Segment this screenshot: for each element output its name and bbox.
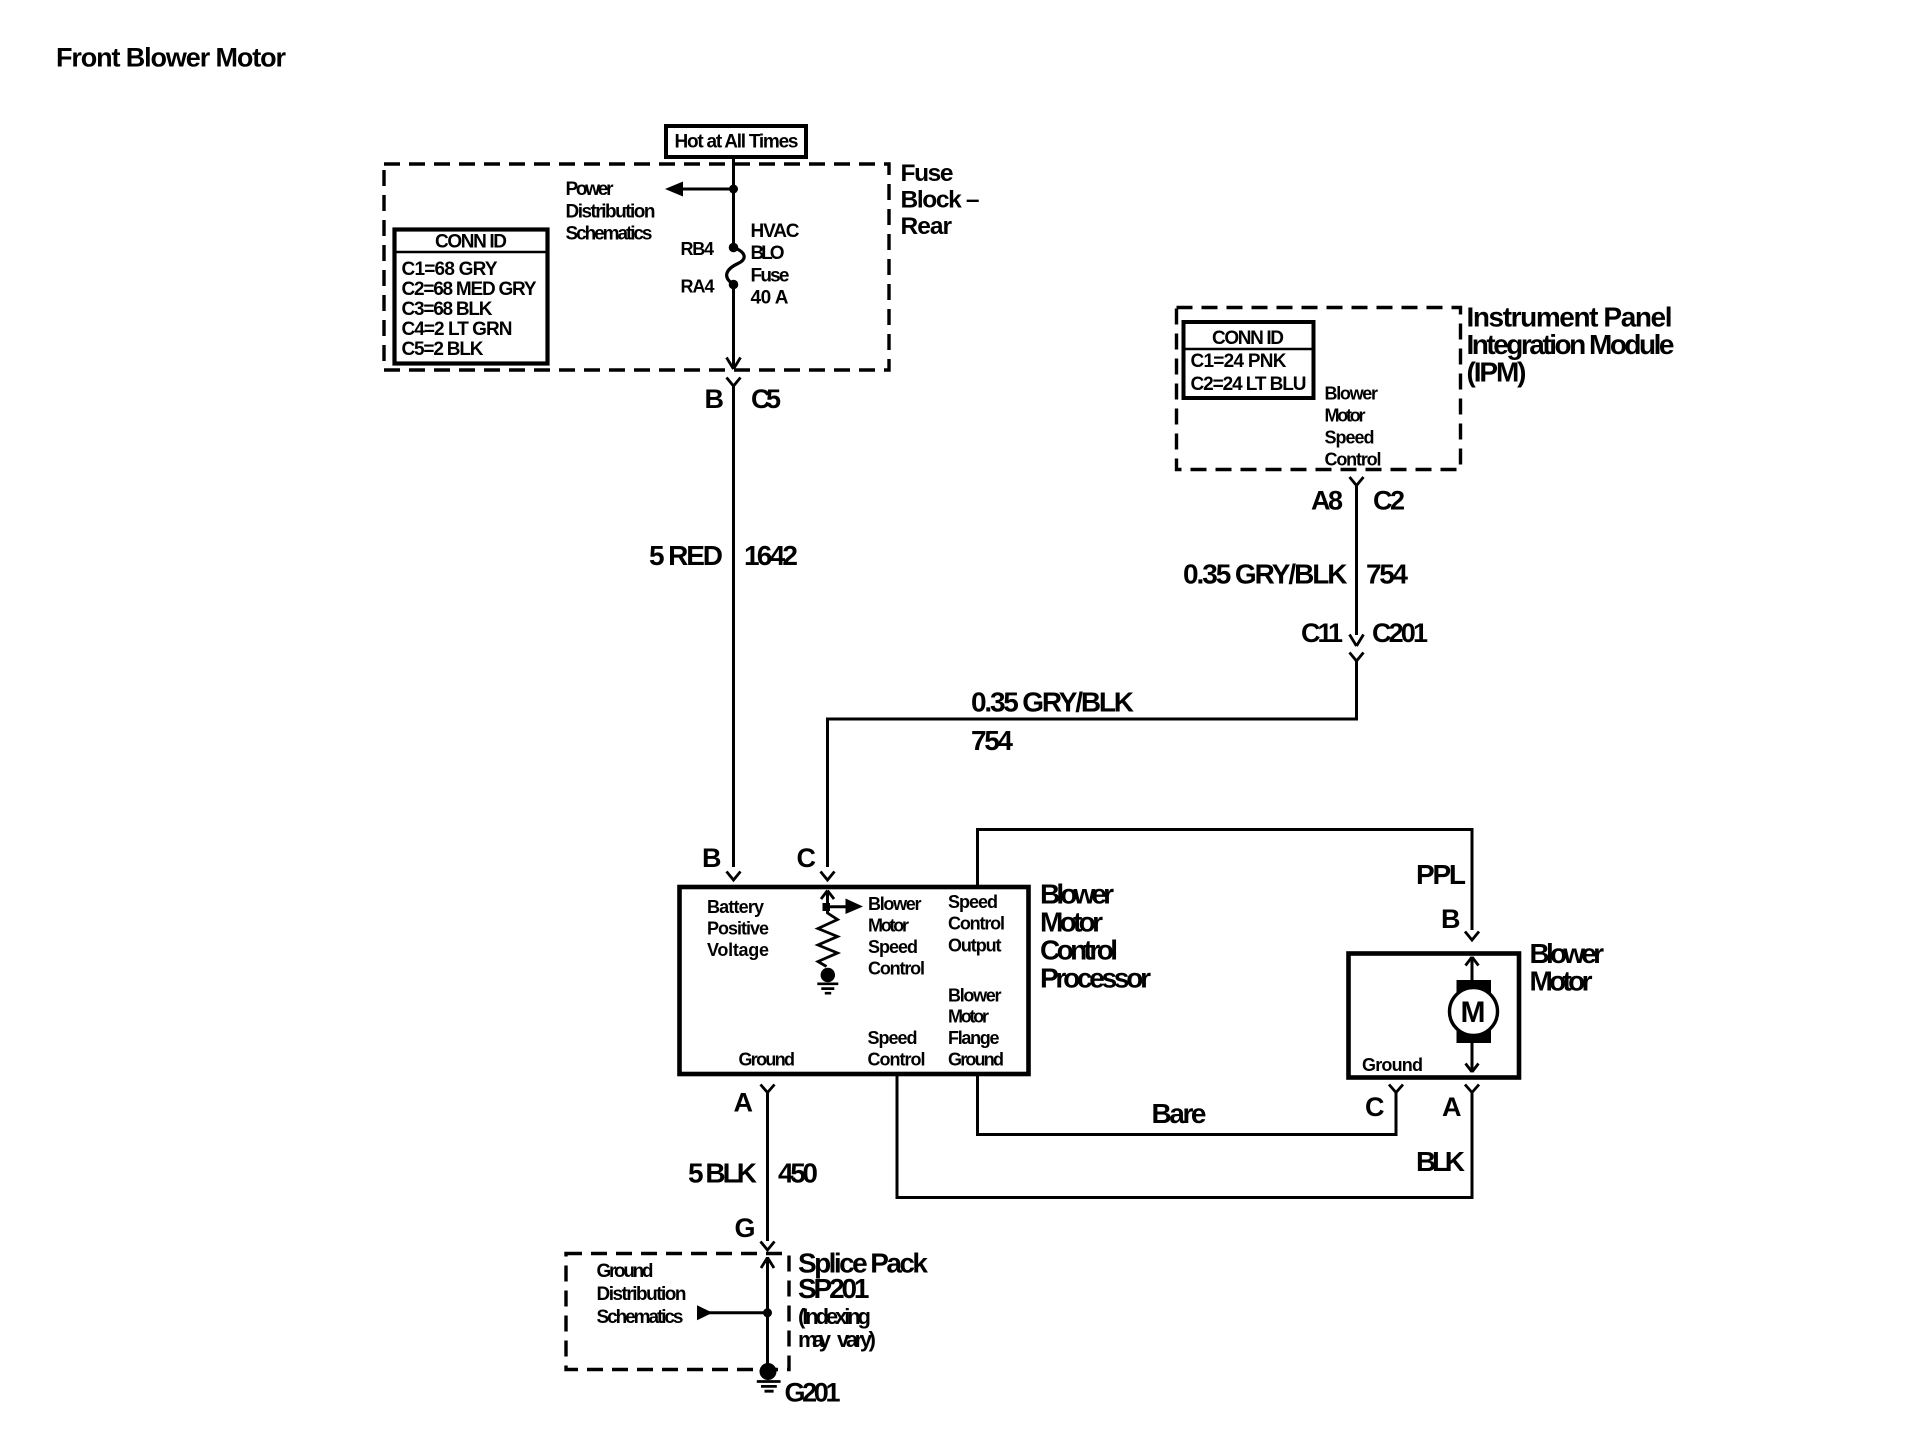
svg-text:Bare: Bare — [1152, 1098, 1207, 1129]
arrowhead at C201 (open, down) — [1350, 635, 1364, 647]
wire: circuit 450 (5 BLK) down to splice pack — [766, 1093, 769, 1242]
svg-text:Motor: Motor — [1040, 907, 1103, 938]
wire: hot at all times down to fuse — [732, 157, 735, 247]
svg-text:C1=24 PNK: C1=24 PNK — [1191, 351, 1287, 372]
svg-text:754: 754 — [971, 725, 1013, 756]
svg-text:1642: 1642 — [744, 540, 798, 571]
svg-text:Fuse: Fuse — [751, 266, 790, 287]
svg-text:Blower: Blower — [1040, 879, 1114, 910]
svg-text:A8: A8 — [1311, 486, 1343, 516]
blower motor control processor box — [680, 887, 1029, 1074]
svg-text:C: C — [797, 843, 817, 873]
svg-text:Distribution: Distribution — [566, 202, 656, 223]
ground G201 dot — [760, 1363, 777, 1380]
svg-text:754: 754 — [1366, 559, 1408, 590]
connector B Y symbol at blower motor — [1465, 932, 1479, 941]
splice junction dot — [763, 1308, 772, 1317]
svg-text:Blower: Blower — [868, 894, 922, 914]
connector C Y symbol under blower motor — [1389, 1085, 1403, 1093]
svg-text:Control: Control — [1040, 935, 1118, 966]
svg-text:RA4: RA4 — [681, 277, 715, 297]
svg-text:A: A — [1442, 1092, 1462, 1122]
svg-text:Control: Control — [1325, 450, 1382, 470]
ground distribution arrow (right) — [697, 1305, 713, 1320]
wire: circuit 1642 (5 RED) down to processor B pin — [732, 386, 735, 867]
svg-text:Voltage: Voltage — [707, 940, 769, 960]
svg-text:(Indexing: (Indexing — [798, 1304, 871, 1329]
svg-text:Speed: Speed — [1325, 428, 1375, 448]
connector C2 Y symbol under IPM — [1350, 477, 1364, 486]
internal: junction square — [823, 903, 831, 911]
internal: resistor ground dot — [821, 968, 835, 982]
svg-text:Flange: Flange — [948, 1028, 1000, 1048]
svg-text:Distribution: Distribution — [597, 1284, 687, 1305]
svg-text:450: 450 — [778, 1158, 818, 1189]
svg-text:SP201: SP201 — [798, 1273, 870, 1304]
svg-text:Ground: Ground — [597, 1261, 654, 1282]
wire: 754 from C201 down, left and down to processor C pin — [828, 661, 1357, 867]
svg-text:PPL: PPL — [1416, 859, 1466, 890]
svg-text:Fuse: Fuse — [901, 160, 954, 187]
arrowhead splice (open, up) — [761, 1258, 774, 1269]
svg-text:Motor: Motor — [1325, 406, 1366, 426]
connector G Y symbol at splice pack — [761, 1242, 775, 1251]
internal: speed control input arrow (up) — [826, 891, 829, 914]
internal: blower motor speed control arrow (right) — [828, 905, 848, 908]
svg-text:Rear: Rear — [901, 213, 953, 240]
internal: motor feed arrow (up) — [1471, 957, 1474, 981]
arrowhead power distribution (left) — [665, 182, 683, 197]
svg-text:HVAC: HVAC — [751, 221, 800, 242]
bare wire: flange ground to blower C — [978, 1074, 1397, 1135]
svg-text:Blower: Blower — [948, 986, 1002, 1006]
hot at all times box — [666, 126, 806, 157]
svg-text:BLK: BLK — [1416, 1146, 1465, 1177]
svg-text:Block –: Block – — [901, 187, 980, 214]
fuse element s-curve — [727, 248, 744, 285]
svg-text:C2: C2 — [1373, 486, 1405, 516]
svg-text:40 A: 40 A — [751, 288, 789, 309]
svg-text:B: B — [702, 843, 722, 873]
svg-text:Speed: Speed — [948, 892, 998, 912]
svg-text:vary): vary) — [837, 1327, 876, 1352]
fuse bottom terminal dot — [729, 280, 739, 290]
svg-text:Positive: Positive — [707, 919, 769, 939]
svg-text:Ground: Ground — [1362, 1055, 1423, 1075]
svg-text:C: C — [1365, 1092, 1385, 1122]
svg-text:Schematics: Schematics — [566, 224, 653, 245]
svg-text:Integration Module: Integration Module — [1467, 329, 1675, 360]
svg-text:Front Blower Motor: Front Blower Motor — [56, 43, 286, 73]
splice pack SP201 dashed box — [566, 1254, 789, 1370]
svg-text:C2=68 MED GRY: C2=68 MED GRY — [402, 279, 537, 300]
internal: resistor — [818, 911, 838, 967]
svg-text:B: B — [705, 384, 725, 414]
connector B Y symbol at processor — [727, 872, 741, 881]
svg-text:C201: C201 — [1372, 618, 1428, 648]
wire: PPL speed control output from processor top to blower B — [978, 830, 1473, 931]
svg-text:Instrument Panel: Instrument Panel — [1467, 302, 1673, 333]
svg-text:C1=68 GRY: C1=68 GRY — [402, 259, 498, 280]
svg-text:BLO: BLO — [751, 243, 785, 264]
conn id table (fuse block) — [395, 230, 548, 364]
svg-text:CONN ID: CONN ID — [435, 232, 507, 253]
internal: motor ground arrow (down) — [1471, 1043, 1474, 1072]
svg-text:Schematics: Schematics — [597, 1307, 684, 1328]
svg-text:Motor: Motor — [1530, 966, 1593, 997]
svg-text:Ground: Ground — [739, 1050, 796, 1070]
connector A Y symbol under processor (ground pin) — [761, 1085, 775, 1093]
svg-text:5 RED: 5 RED — [649, 540, 723, 571]
svg-text:may: may — [798, 1327, 832, 1352]
svg-text:C4=2 LT GRN: C4=2 LT GRN — [402, 319, 513, 340]
blower motor box — [1349, 954, 1520, 1078]
fuse block rear dashed box — [384, 164, 889, 370]
svg-text:Processor: Processor — [1040, 963, 1151, 994]
arrowhead at fuse block exit (open, down) — [727, 358, 741, 370]
svg-text:C2=24 LT BLU: C2=24 LT BLU — [1191, 374, 1307, 395]
svg-text:(IPM): (IPM) — [1467, 357, 1527, 388]
svg-text:C11: C11 — [1301, 618, 1343, 648]
internal: resistor ground symbol — [817, 984, 838, 993]
svg-text:Blower: Blower — [1325, 384, 1379, 404]
svg-text:5 BLK: 5 BLK — [688, 1158, 757, 1189]
svg-text:Output: Output — [948, 936, 1002, 956]
wire: fuse to connector C5 — [732, 285, 735, 370]
svg-text:CONN ID: CONN ID — [1212, 328, 1284, 349]
fuse HVAC BLO 40A: top terminal dot — [729, 243, 739, 253]
svg-text:Motor: Motor — [948, 1007, 989, 1027]
svg-text:Control: Control — [868, 959, 925, 979]
svg-text:Power: Power — [566, 179, 615, 200]
svg-text:B: B — [1441, 904, 1461, 934]
svg-text:C5=2 BLK: C5=2 BLK — [402, 339, 484, 360]
svg-text:Battery: Battery — [707, 897, 764, 917]
motor M: armature block — [1457, 980, 1492, 1043]
connector A Y symbol under blower motor — [1465, 1085, 1479, 1093]
svg-text:Motor: Motor — [868, 916, 909, 936]
svg-text:Speed: Speed — [868, 1028, 918, 1048]
svg-text:Control: Control — [948, 914, 1005, 934]
ground symbol G201 — [757, 1382, 781, 1392]
svg-text:0.35 GRY/BLK: 0.35 GRY/BLK — [1183, 559, 1348, 590]
conn id table (IPM) — [1184, 322, 1314, 398]
svg-text:Blower: Blower — [1530, 938, 1605, 969]
svg-text:Ground: Ground — [948, 1050, 1004, 1070]
wire: power distribution feed — [680, 188, 734, 191]
connector C201 Y symbol — [1350, 653, 1364, 662]
connector C5 Y symbol — [727, 378, 741, 387]
motor M: rotor circle — [1450, 988, 1498, 1036]
svg-text:C3=68 BLK: C3=68 BLK — [402, 299, 493, 320]
svg-text:Speed: Speed — [868, 937, 918, 957]
wire: splice internal vertical — [766, 1257, 769, 1365]
svg-text:M: M — [1461, 996, 1486, 1029]
svg-text:C5: C5 — [751, 384, 781, 414]
svg-text:G201: G201 — [785, 1378, 841, 1408]
svg-text:Control: Control — [868, 1050, 926, 1070]
svg-text:Hot at All Times: Hot at All Times — [675, 132, 799, 153]
blk wire: speed control to blower A — [897, 1074, 1472, 1198]
instrument panel integration module dashed box — [1177, 308, 1461, 470]
svg-text:RB4: RB4 — [681, 239, 715, 259]
connector C Y symbol at processor — [821, 872, 835, 881]
svg-text:G: G — [735, 1213, 756, 1243]
wire: circuit 754 from IPM down — [1355, 486, 1358, 636]
junction dot power feed — [729, 185, 738, 194]
svg-text:A: A — [734, 1088, 754, 1118]
svg-text:0.35 GRY/BLK: 0.35 GRY/BLK — [971, 687, 1134, 718]
